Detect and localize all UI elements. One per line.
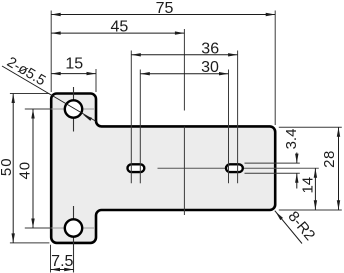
extension line x=184.4 lower through plate <box>183 127 185 216</box>
dimension 45 <box>51 19 184 36</box>
dimension 15 <box>51 56 96 76</box>
extension line x=184.4 (45, slot group center) upper <box>183 29 185 111</box>
hole bottom centerline horizontal <box>52 227 95 229</box>
dimension 30 <box>140 59 228 76</box>
svg-text:75: 75 <box>156 0 174 17</box>
extension line y=210 (28/14 bottom) <box>279 209 342 211</box>
hole top (2-Phi5.5) <box>65 100 82 117</box>
leader 2-phi5.5 arrowhead <box>82 113 92 121</box>
extension line x=140.3 (30 left) <box>139 70 141 184</box>
extension line x=131.3 (36 left) <box>130 51 132 184</box>
slot left <box>128 164 145 172</box>
svg-text:40: 40 <box>16 161 33 180</box>
hole vertical centerline lower segment <box>73 206 75 273</box>
svg-text:14: 14 <box>300 177 317 194</box>
extension line y=109 (40 top) <box>25 108 52 110</box>
svg-text:8-R2: 8-R2 <box>284 208 318 244</box>
dimension 75 <box>51 0 275 17</box>
extension line y=163.1 (3.4 top) <box>245 162 300 164</box>
extension line y=242.9 (50 bottom) <box>10 242 50 244</box>
slot right <box>226 164 243 172</box>
leader 2-phi5.5 <box>2 66 96 122</box>
hole vertical centerline upper segment <box>73 87 75 132</box>
dimension 7.5 <box>51 253 74 271</box>
slot centerline horizontal <box>130 167 143 169</box>
hole bottom (2-Phi5.5) <box>65 219 82 236</box>
extension line x=96 (15 right) <box>95 69 97 92</box>
dimension 36 <box>131 40 237 57</box>
dimension 40 <box>16 109 34 228</box>
svg-text:3.4: 3.4 <box>283 129 300 150</box>
extension line y=127.2 (28 top) <box>279 126 342 128</box>
svg-text:28: 28 <box>321 150 338 168</box>
hole top centerline horizontal <box>52 108 95 110</box>
leader 8-R2 <box>275 211 302 244</box>
extension line right x=275.2 (75) <box>274 11 276 126</box>
extension line x=228.5 (30 right) <box>228 70 230 184</box>
svg-text:2-ø5.5: 2-ø5.5 <box>4 54 48 89</box>
svg-text:15: 15 <box>65 56 83 73</box>
bracket plate outline <box>51 94 275 243</box>
dimension 50 <box>0 94 15 243</box>
svg-text:45: 45 <box>111 19 129 36</box>
dimension 3.4 <box>283 129 300 189</box>
extension line y=228 (40 bottom) <box>25 227 52 229</box>
dimension 7.5 extension left x=50.5 <box>50 245 52 273</box>
svg-text:7.5: 7.5 <box>51 253 73 270</box>
dimension 14 <box>300 168 318 210</box>
extension line left x=51.2 (75/45/15) <box>50 11 52 93</box>
extension line y=173.3 (3.4 bottom) <box>245 172 300 174</box>
svg-text:30: 30 <box>201 59 219 76</box>
extension line x=237.6 (36 right) <box>237 51 239 184</box>
dimension 28 <box>321 127 340 210</box>
svg-text:50: 50 <box>0 157 15 176</box>
leader 8-R2 arrowhead <box>274 211 283 220</box>
extension line y=93.5 (50 top) <box>10 93 50 95</box>
svg-text:36: 36 <box>201 40 219 57</box>
